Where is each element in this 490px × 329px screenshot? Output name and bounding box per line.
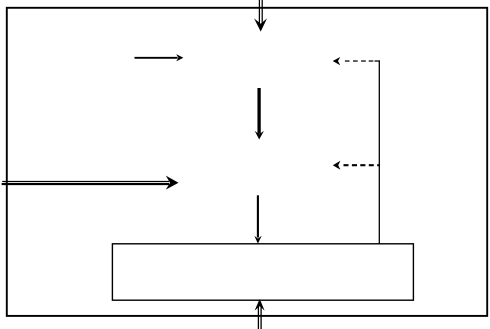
- double-line up arrow (bottom, crossing border into box): [255, 299, 265, 329]
- big double-line right arrow (left, crossing border): [2, 176, 179, 190]
- dashed left arrow (middle right, bold): [333, 161, 380, 170]
- dashed left arrow (upper right): [333, 57, 380, 65]
- thick down arrow (center): [255, 88, 264, 140]
- thin down arrow (above box): [254, 195, 261, 243]
- inner process box: [112, 244, 413, 300]
- small right arrow (upper left): [135, 54, 184, 61]
- double-line down arrow (top center): [254, 0, 267, 32]
- feedback wire: vertical line from dashed arrows down to box: [378, 60, 380, 243]
